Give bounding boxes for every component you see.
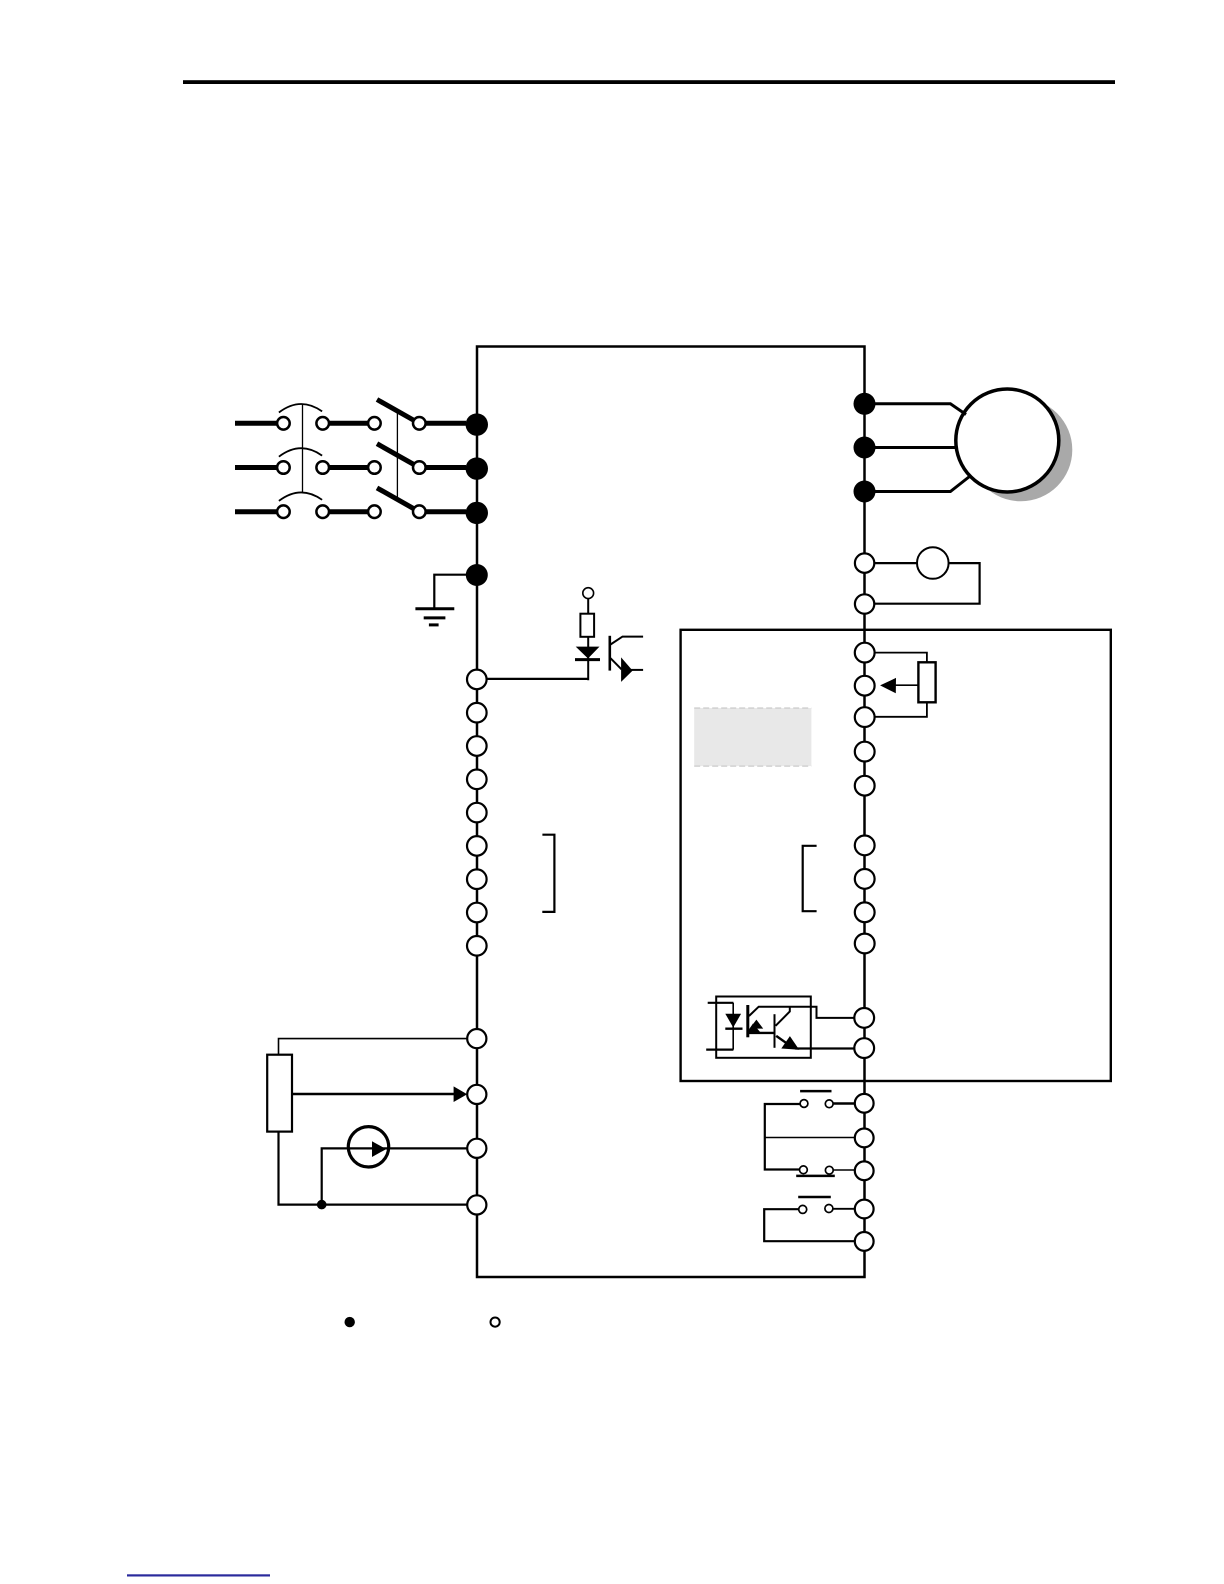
contactor gang linkage	[396, 412, 398, 501]
relay A NC overline	[800, 1090, 831, 1093]
left bus control terminal 5	[467, 803, 487, 823]
diode zener anode triangle	[576, 647, 600, 659]
left bus control terminal 2	[467, 703, 487, 723]
node junction dot	[317, 1200, 327, 1210]
wire relay A common rail	[765, 1104, 800, 1170]
contactor MC pole S blade	[377, 444, 413, 465]
legend open terminal circle	[491, 1318, 500, 1327]
current source arrow	[372, 1141, 386, 1157]
terminal U	[854, 393, 876, 415]
wire U to motor	[875, 404, 966, 415]
wire relay A NC to terminal	[833, 1102, 855, 1104]
arrow internal pot wiper	[880, 678, 896, 693]
terminal relay B2	[855, 1232, 874, 1251]
right bus control terminal 7	[855, 869, 875, 889]
relay B contact circles	[799, 1205, 833, 1214]
optocoupler cathode lead	[706, 1048, 733, 1050]
wire S contactor to terminal	[426, 465, 466, 470]
control signal box outline	[681, 630, 1111, 1081]
breaker MCCB pole T contacts	[277, 505, 329, 518]
terminal S	[466, 457, 488, 479]
relay B overline	[798, 1196, 831, 1199]
contactor MC pole T contacts	[368, 505, 426, 518]
breaker MCCB pole S contacts	[277, 461, 329, 474]
bracket left group	[542, 835, 554, 912]
terminal relay A3	[855, 1161, 874, 1180]
relay A NC contact circles	[800, 1100, 833, 1108]
ground earth symbol	[415, 609, 454, 625]
right bus control terminal 4	[855, 742, 875, 762]
optocoupler LED vertical	[732, 1003, 734, 1050]
legend filled terminal dot	[345, 1317, 355, 1327]
wire relay A NO to terminal	[833, 1169, 855, 1171]
arrow external pot wiper	[454, 1086, 468, 1102]
left bus control terminal 7	[467, 869, 487, 889]
phototransistor Q1 base bar	[746, 1005, 749, 1037]
wire meter loop	[874, 563, 979, 604]
left bus control terminal 8	[467, 903, 487, 923]
phototransistor Q1 collector lead	[749, 1007, 854, 1018]
phototransistor Q2 collector lead	[776, 1007, 790, 1026]
breaker gang linkage	[302, 404, 304, 493]
motor shadow	[969, 398, 1072, 501]
wire pull-up vertical	[587, 599, 589, 681]
optocoupler anode lead	[708, 1002, 734, 1004]
terminal opto collector	[854, 1008, 874, 1028]
terminal R	[466, 413, 488, 435]
phototransistor Q2 emitter arrow	[781, 1036, 799, 1050]
diode zener cathode bar	[575, 658, 600, 661]
breaker MCCB pole R contacts	[277, 417, 329, 430]
phototransistor Q1 emitter arrow a	[750, 1020, 764, 1029]
wire internal pot bottom	[875, 702, 927, 717]
terminal relay A2	[855, 1129, 874, 1148]
phototransistor Q1 emitter arrow b	[747, 1024, 761, 1033]
relay A NO blade underline	[796, 1175, 835, 1178]
left bus control terminal 9	[467, 936, 487, 956]
transistor collector lead	[611, 637, 644, 645]
meter circle FM	[917, 547, 949, 579]
wire external pot bottom	[279, 1132, 468, 1205]
phototransistor Q2 emitter lead	[776, 1036, 786, 1043]
wire T input lead	[235, 509, 278, 514]
right bus control terminal 2	[855, 676, 875, 696]
wire internal pot top	[875, 653, 927, 663]
inverter main box outline	[477, 347, 865, 1278]
wire ground terminal to earth	[434, 575, 467, 609]
right bus control terminal 5	[855, 776, 875, 796]
note gray rect dashed top edge	[694, 707, 811, 709]
wire T breaker to contactor	[329, 509, 369, 514]
terminal V	[854, 437, 876, 459]
left bus control terminal 6	[467, 836, 487, 856]
wire S breaker to contactor	[329, 465, 369, 470]
wire Q2 emitter out	[795, 1047, 854, 1049]
right bus control terminal 1	[855, 643, 875, 663]
wire V to motor	[875, 446, 956, 449]
wire external pot top	[279, 1039, 468, 1055]
optocoupler LED triangle	[725, 1014, 741, 1028]
bracket right group	[803, 846, 817, 911]
terminal FM+	[855, 553, 874, 572]
left bus control terminal 1	[467, 670, 487, 690]
wire terminal 1 to open collector node	[487, 678, 589, 680]
terminal analog 3	[467, 1139, 486, 1158]
terminal analog 2	[467, 1085, 486, 1104]
wire external pot wiper	[292, 1093, 455, 1096]
terminal analog 1	[467, 1029, 486, 1048]
node open collector pull-up pin	[583, 588, 594, 599]
terminal relay A1	[855, 1094, 874, 1113]
current source circle	[348, 1127, 388, 1167]
optocoupler U1 box	[716, 997, 811, 1058]
potentiometer external body	[267, 1055, 292, 1132]
transistor open-collector base bar	[608, 636, 611, 671]
breaker MCCB pole S arc	[279, 448, 322, 456]
terminal relay B1	[855, 1200, 874, 1219]
header rule	[183, 80, 1115, 84]
wire relay A common to terminal	[765, 1137, 855, 1139]
note gray rect dashed bottom edge	[694, 765, 811, 767]
wire current source branch	[322, 1148, 349, 1204]
contactor MC pole R contacts	[368, 417, 426, 430]
terminal W	[854, 481, 876, 503]
wire through current source	[349, 1147, 389, 1149]
optocoupler LED cathode bar	[725, 1027, 742, 1029]
contactor MC pole S contacts	[368, 461, 426, 474]
terminal T	[466, 502, 488, 524]
transistor emitter lead	[611, 658, 622, 669]
right bus control terminal 8	[855, 902, 875, 922]
terminal analog 4	[467, 1195, 486, 1214]
transistor emitter arrow	[621, 657, 633, 682]
contactor MC pole R blade	[377, 400, 413, 421]
wire S input lead	[235, 465, 278, 470]
contactor MC pole T blade	[377, 488, 413, 509]
footer blue rule	[127, 1574, 270, 1576]
motor circle M	[956, 389, 1059, 492]
left bus control terminal 3	[467, 736, 487, 756]
relay A NO contact circles	[800, 1166, 834, 1174]
right bus control terminal 6	[855, 836, 875, 856]
right bus control terminal 9	[855, 934, 875, 954]
wire internal pot wiper	[894, 684, 918, 686]
right bus control terminal 3	[855, 707, 875, 727]
wire T contactor to terminal	[426, 509, 466, 514]
wire relay B to terminal	[833, 1208, 855, 1210]
left bus control terminal 4	[467, 770, 487, 790]
terminal FM-	[855, 594, 874, 613]
wire emitter out	[630, 669, 643, 671]
wire current source to terminal	[389, 1147, 468, 1149]
terminal opto emitter	[854, 1038, 874, 1058]
wire W to motor	[875, 477, 970, 492]
wire R breaker to contactor	[329, 421, 369, 426]
ground terminal G	[466, 564, 488, 586]
wire Q1 emitter to Q2 base	[749, 1032, 775, 1034]
phototransistor Q2 base bar	[774, 1014, 776, 1048]
wire relay B common	[764, 1209, 855, 1241]
potentiometer internal body	[918, 662, 935, 702]
wire R contactor to terminal	[426, 421, 466, 426]
note gray highlight rect	[694, 708, 811, 766]
wire R input lead	[235, 421, 278, 426]
resistor pull-up	[580, 614, 594, 637]
breaker MCCB pole T arc	[279, 492, 322, 500]
breaker MCCB pole R arc	[279, 404, 322, 412]
